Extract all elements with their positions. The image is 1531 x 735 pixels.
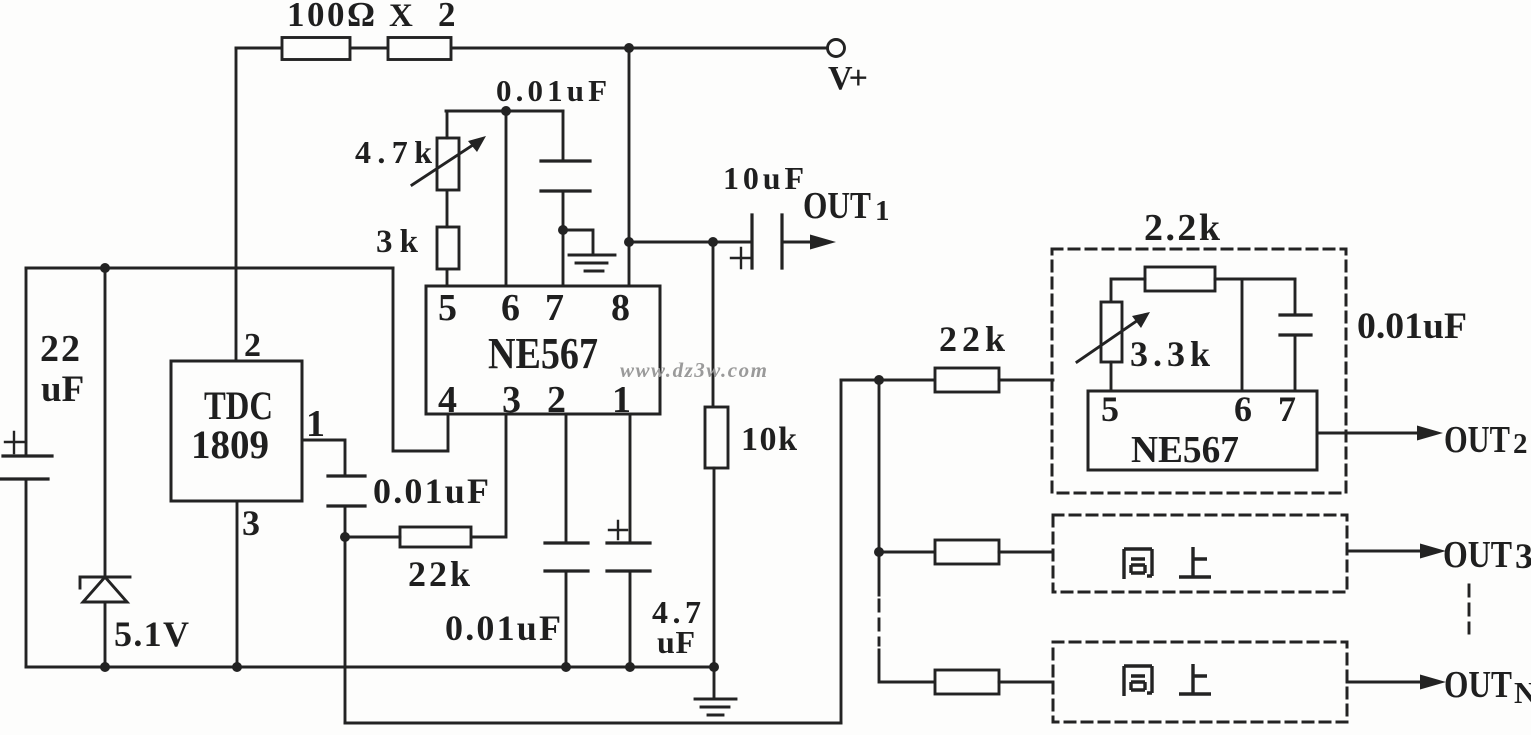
svg-text:N: N: [1514, 675, 1531, 710]
svg-text:6: 6: [1234, 389, 1252, 429]
resistor 100ohm A: [282, 38, 350, 60]
node junction zener bottom: [100, 662, 110, 672]
svg-text:100Ω: 100Ω: [287, 0, 375, 34]
resistor 22k mid: [400, 527, 471, 547]
wire bus x=879 upper: [878, 380, 881, 595]
svg-text:NE567: NE567: [1131, 429, 1239, 471]
svg-text:2: 2: [1513, 428, 1528, 460]
wire right feed y=380: [841, 379, 935, 382]
capacitor 4.7uF plus sign: [609, 521, 627, 539]
svg-text:3: 3: [1515, 536, 1531, 576]
ground symbol near pin7: [569, 255, 615, 271]
diode zener D1 5.1V: [83, 577, 127, 602]
node junction pin1 cap ground: [625, 662, 635, 672]
svg-text:6: 6: [501, 287, 520, 329]
svg-text:0.01uF: 0.01uF: [1357, 306, 1467, 347]
resistor 3.3k variable: [1101, 302, 1122, 362]
svg-text:4: 4: [438, 379, 457, 421]
svg-text:2: 2: [244, 327, 261, 364]
wire right riser x=841: [840, 380, 843, 723]
terminal V+: [828, 40, 845, 57]
node junction 10k ground: [709, 662, 719, 672]
wire bus dashed segment: [878, 600, 881, 645]
node junction out1 tap: [624, 237, 634, 247]
wire left rail y=268: [26, 267, 393, 270]
svg-text:2.2k: 2.2k: [1144, 207, 1221, 249]
IC U1 TDC1809 box: [171, 361, 302, 501]
node junction zener top: [100, 263, 110, 273]
svg-text:5: 5: [1101, 389, 1119, 429]
svg-text:2: 2: [438, 0, 456, 34]
wire ground branch: [563, 230, 593, 254]
svg-text:5: 5: [438, 287, 457, 329]
svg-text:1: 1: [875, 195, 890, 227]
wire 10k bottom: [713, 468, 716, 667]
wire TDC pin1: [302, 440, 345, 476]
svg-text:OUT: OUT: [1443, 534, 1512, 576]
wire pin2 cap to ground: [565, 571, 568, 667]
wire 3.3k to pin5: [1110, 362, 1113, 391]
capacitor 0.01uF pin2: [545, 543, 588, 571]
node junction bus top: [874, 375, 884, 385]
dashed module box C: [1053, 642, 1347, 722]
wire ground rail y=667: [26, 666, 714, 669]
wire 4.7k top: [446, 111, 449, 138]
IC U3 NE567 box: [1088, 391, 1317, 470]
wire OUT3 lead: [1347, 550, 1420, 553]
arrow OUTN: [1420, 675, 1446, 690]
capacitor 0.01uF at TDC pin1: [328, 476, 365, 506]
svg-text:OUT: OUT: [1444, 664, 1512, 706]
wire OUTN lead: [1347, 681, 1420, 684]
wire top link y=111: [446, 110, 563, 113]
svg-text:10uF: 10uF: [723, 160, 804, 196]
svg-text:2: 2: [547, 379, 566, 421]
arrow of 3.3k pot: [1077, 318, 1141, 362]
svg-text:uF: uF: [41, 369, 84, 410]
resistor 2.2k: [1145, 267, 1215, 291]
svg-text:1: 1: [306, 403, 325, 445]
text tong-shang box C: [1124, 664, 1211, 696]
resistor 4.7k variable: [437, 138, 459, 190]
node junction 10k top: [708, 237, 718, 247]
wire out1 arrow lead: [782, 241, 812, 244]
wire pin6 riser: [1241, 279, 1244, 391]
wire bottom loop y=723: [345, 722, 841, 725]
text tong-shang box B: [1124, 547, 1211, 579]
wire dashed continuation mark: [1468, 585, 1471, 633]
node junction 22k/cap: [340, 532, 350, 542]
svg-text:0.01uF: 0.01uF: [445, 608, 561, 648]
resistor 22k row1: [935, 368, 999, 392]
wire 10k top: [712, 242, 715, 407]
svg-text:OUT: OUT: [1444, 419, 1510, 461]
capacitor 0.01uF timing: [541, 161, 590, 191]
wire 3k to 4.7k: [446, 190, 449, 227]
wire pin2 vertical: [565, 414, 568, 543]
svg-text:uF: uF: [657, 624, 695, 660]
svg-text:22k: 22k: [408, 554, 470, 594]
wire down-left loop vertical: [344, 537, 347, 723]
svg-text:5.1V: 5.1V: [114, 614, 189, 654]
svg-text:8: 8: [611, 287, 630, 329]
svg-text:22k: 22k: [939, 319, 1005, 359]
svg-text:1809: 1809: [191, 422, 269, 467]
wire cap 0.01 top stem: [562, 111, 565, 161]
svg-text:0.01uF: 0.01uF: [373, 471, 489, 511]
arrow OUT2: [1417, 426, 1443, 441]
wire out1 horizontal: [629, 241, 752, 244]
dashed module box A: [1052, 249, 1346, 493]
wire top rail y=48: [236, 47, 827, 50]
wire cap to junction: [344, 506, 347, 537]
svg-text:10k: 10k: [741, 421, 797, 458]
wire pin5 from 3k: [446, 269, 449, 286]
wire OUT2 lead: [1317, 432, 1417, 435]
capacitor 0.01uF module: [1280, 315, 1311, 335]
node junction pin2 cap ground: [561, 662, 571, 672]
wire pin3 to 22k: [471, 414, 506, 537]
svg-text:www.dz3w.com: www.dz3w.com: [620, 358, 767, 382]
wire row3 to box: [999, 681, 1053, 684]
svg-text:3: 3: [242, 503, 260, 543]
resistor 10k: [705, 407, 728, 468]
node junction bus row2: [874, 547, 884, 557]
wire cap bottom to pin7: [562, 191, 565, 286]
wire TDC pin2 vertical: [235, 48, 238, 361]
wire pin1 vertical: [629, 414, 632, 543]
svg-text:4.7k: 4.7k: [355, 134, 432, 170]
arrow OUT1: [810, 235, 836, 250]
wire bus lower: [879, 650, 935, 682]
wire row2 to box: [999, 551, 1053, 554]
wire cap to pin7: [1294, 335, 1297, 391]
resistor 3k: [437, 227, 459, 269]
dashed module box B: [1053, 515, 1347, 592]
svg-text:7: 7: [1278, 389, 1296, 429]
wire zener vertical: [104, 268, 107, 667]
wire TDC pin3: [236, 501, 239, 667]
capacitor 4.7uF pin1: [607, 543, 650, 571]
svg-text:OUT: OUT: [803, 185, 871, 227]
wire 2.2k right: [1215, 278, 1295, 281]
wire left edge vertical: [25, 268, 28, 667]
arrow of 4.7k pot: [412, 143, 476, 185]
capacitor 22uF plates: [0, 456, 52, 479]
wire row2 feed: [879, 551, 935, 554]
svg-text:3: 3: [502, 379, 521, 421]
svg-text:X: X: [389, 0, 413, 34]
resistor 100ohm B: [388, 38, 451, 60]
wire row1 to box: [999, 379, 1053, 382]
svg-text:7: 7: [545, 287, 564, 329]
resistor 22k row3: [935, 670, 999, 694]
resistor 22k row2: [935, 540, 999, 564]
capacitor 22uF plus sign: [5, 432, 26, 453]
node junction TDC pin3 ground: [232, 662, 242, 672]
capacitor 10uF coupling: [752, 215, 782, 268]
wire 22k to junction: [345, 536, 400, 539]
svg-text:NE567: NE567: [488, 329, 598, 378]
wire pin8 V+ vertical: [628, 48, 631, 286]
node junction V+ rail to pin8 line: [624, 43, 634, 53]
node junction pin7/ground: [558, 225, 568, 235]
IC U2 NE567 box: [426, 286, 660, 414]
wire pin4 link: [393, 268, 448, 451]
ground symbol main: [695, 667, 736, 715]
wire cap stem: [1294, 279, 1297, 315]
svg-text:V+: V+: [828, 60, 868, 97]
capacitor 10uF plus sign: [731, 248, 750, 268]
wire pin1 cap to ground: [629, 571, 632, 667]
wire 2.2k left: [1111, 279, 1145, 302]
arrow OUT3: [1420, 544, 1446, 559]
svg-text:1: 1: [612, 379, 631, 421]
node junction pin6 top: [501, 106, 511, 116]
wire pin6 vertical: [505, 111, 508, 286]
svg-text:3.3k: 3.3k: [1130, 334, 1210, 374]
